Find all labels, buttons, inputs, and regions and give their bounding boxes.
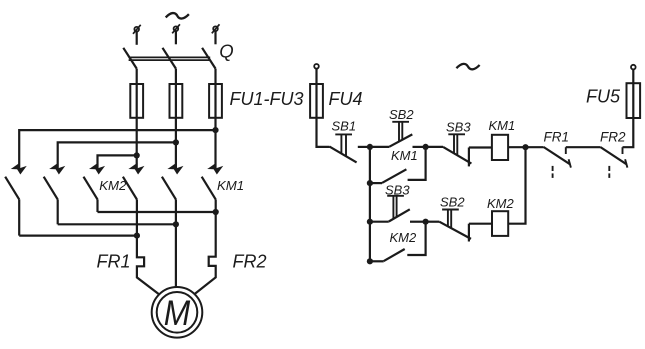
label KM2 (power contacts) (99, 178, 127, 193)
contactor main contact (KM1 contact a): arrow + blade (123, 164, 143, 200)
label FU5 (586, 87, 621, 107)
svg-text:FR2: FR2 (600, 130, 626, 145)
wire FR2 up to FU5 (623, 118, 634, 147)
wire col4 down (136, 199, 138, 235)
svg-text:FR1: FR1 (97, 251, 131, 271)
pushbutton SB1 (NC stop): plunger + blade (330, 134, 357, 162)
wire coil KM1 to node C (508, 146, 525, 148)
thermal contact FR2 (NC): blade + trip dashes (600, 147, 627, 178)
control terminal (FU5 top) (631, 65, 636, 70)
label KM1 (aux contact) (391, 148, 418, 163)
label KM1 (coil) (489, 118, 516, 133)
svg-text:KM1: KM1 (217, 178, 244, 193)
pushbutton SB2 NC contact: plunger + blade (389, 122, 412, 147)
wire cross (col3 to col6) (98, 211, 216, 213)
fuse FU3 (209, 84, 222, 118)
svg-text:FR1: FR1 (544, 130, 570, 145)
thermal relay heater FR1 (137, 236, 159, 295)
wire cross (col1 to col4) (19, 235, 137, 237)
thermal contact FR1 (NC): blade + trip dashes (526, 147, 571, 178)
label KM2 (coil) (487, 196, 515, 211)
svg-text:FU1-FU3: FU1-FU3 (230, 89, 304, 109)
svg-text:SB1: SB1 (332, 119, 357, 134)
svg-text:KM2: KM2 (99, 178, 127, 193)
coil KM1 (492, 135, 508, 160)
svg-text:FR2: FR2 (233, 251, 267, 271)
wire branch 3 (phase1 to col3) (98, 155, 137, 168)
wire col2 down (57, 199, 59, 224)
label FR2 (power) (233, 251, 267, 271)
fuse FU5 (627, 83, 641, 118)
node junction col6 (213, 209, 219, 215)
supply terminal L1 (circle with slash) (133, 25, 141, 45)
label FR2 (control contact) (600, 130, 626, 145)
wire branch 2 (phase2 to col2) (58, 142, 176, 168)
wire branch 1 (phase3 to col1) (19, 130, 215, 168)
label SB1 (332, 119, 357, 134)
fuse FU1 (130, 84, 143, 118)
contactor main contact (KM1 contact c): arrow + blade (202, 164, 222, 200)
wire col6 down (215, 199, 217, 212)
supply terminal L3 (circle with slash) (212, 24, 220, 44)
svg-text:FU4: FU4 (329, 89, 363, 109)
contactor main contact (KM1 contact b): arrow + blade (162, 164, 182, 200)
auxiliary contact KM1 (self-hold) (370, 147, 426, 183)
wire col5 down (175, 199, 177, 224)
label SB3 (NO) (446, 119, 471, 134)
wire FR1 to FR2 (566, 146, 601, 148)
wire node A vertical rail (369, 147, 371, 261)
label FR1 (control contact) (544, 130, 570, 145)
node A2 (KM1 aux tap) (367, 180, 373, 186)
wire FU5 vertical (632, 69, 634, 118)
label KM1 (power contacts) (217, 178, 244, 193)
node phase3 branch junction (212, 127, 218, 133)
label Q (219, 41, 233, 62)
contactor main contact (KM2 contact b): arrow + blade (44, 164, 64, 200)
label SB2 (NO, reverse branch) (440, 194, 465, 209)
contactor main contact (KM2 contact a): arrow + blade (5, 164, 25, 200)
fuse FU4 (310, 84, 323, 118)
thermal relay heater FR2 (194, 212, 216, 295)
svg-text:KM2: KM2 (390, 230, 418, 245)
node B (423, 144, 429, 150)
wire cross (col2 to col5) (58, 223, 176, 225)
AC supply tilde (control side) (456, 64, 479, 70)
node C (522, 144, 528, 150)
node junction col5 (173, 221, 179, 227)
supply terminal L2 (circle with slash) (172, 24, 180, 44)
switch Q blade 3 (202, 48, 215, 69)
label FU4 (329, 89, 363, 109)
wire phase 3 vertical (switch to contact) (214, 69, 216, 169)
node phase2 branch junction (173, 139, 179, 145)
label FU1-FU3 (230, 89, 304, 109)
svg-text:FU5: FU5 (586, 87, 621, 107)
contactor main contact (KM2 contact c): arrow + blade (84, 164, 104, 200)
auxiliary contact KM2 (self-hold) (370, 222, 426, 262)
switch Q blade 2 (163, 48, 176, 69)
control terminal (FU4 top) (314, 64, 319, 84)
svg-text:M: M (164, 294, 191, 333)
node A (367, 144, 373, 150)
svg-text:Q: Q (219, 41, 233, 62)
wire phase 2 vertical (switch to contact) (175, 69, 177, 169)
AC supply tilde (power side) (166, 13, 189, 19)
svg-text:KM1: KM1 (489, 118, 516, 133)
svg-text:KM1: KM1 (391, 148, 418, 163)
svg-text:KM2: KM2 (487, 196, 515, 211)
wire SB3 to coil KM1 (469, 146, 492, 148)
fuse FU2 (170, 84, 183, 118)
coil KM2 (492, 211, 508, 236)
node A4 (KM2 aux tap) (367, 258, 373, 264)
label KM2 (aux contact) (390, 230, 418, 245)
svg-text:SB2: SB2 (440, 194, 465, 209)
wire col3 down (96, 199, 98, 212)
svg-text:SB2: SB2 (389, 107, 414, 122)
switch Q blade 1 (123, 48, 136, 69)
label SB2 (NC) (389, 107, 414, 122)
wire node A to SB2 (370, 146, 390, 148)
wire FU4 vertical + corner to SB1 (317, 84, 330, 147)
wire SB3nc to node D (410, 221, 426, 223)
label FR1 (power) (97, 251, 131, 271)
label SB3 (NC, reverse branch) (385, 183, 410, 198)
wire motor middle lead (175, 224, 177, 287)
wire phase 1 vertical (switch to contact) (136, 69, 138, 169)
switch Q linkage bar (double line) (129, 57, 211, 60)
pushbutton SB3 NO contact: plunger + blade + fixed contact (426, 134, 472, 166)
wire coil KM2 to node C (508, 147, 525, 224)
wire SB2no to coil KM2 (469, 223, 492, 225)
wire SB2 to node B (413, 146, 426, 148)
node D (423, 219, 429, 225)
pushbutton SB3 NC contact: plunger + blade (370, 196, 410, 222)
node junction col4 (134, 233, 140, 239)
node A3 (reverse branch tap) (367, 219, 373, 225)
wire col1 down (18, 199, 20, 235)
wire SB1 to node A (358, 146, 370, 148)
pushbutton SB2 NO contact: plunger + blade + fixed contact (426, 210, 471, 242)
motor M (double circle) (152, 287, 203, 338)
node phase1 branch junction (134, 152, 140, 158)
svg-text:SB3: SB3 (446, 119, 471, 134)
